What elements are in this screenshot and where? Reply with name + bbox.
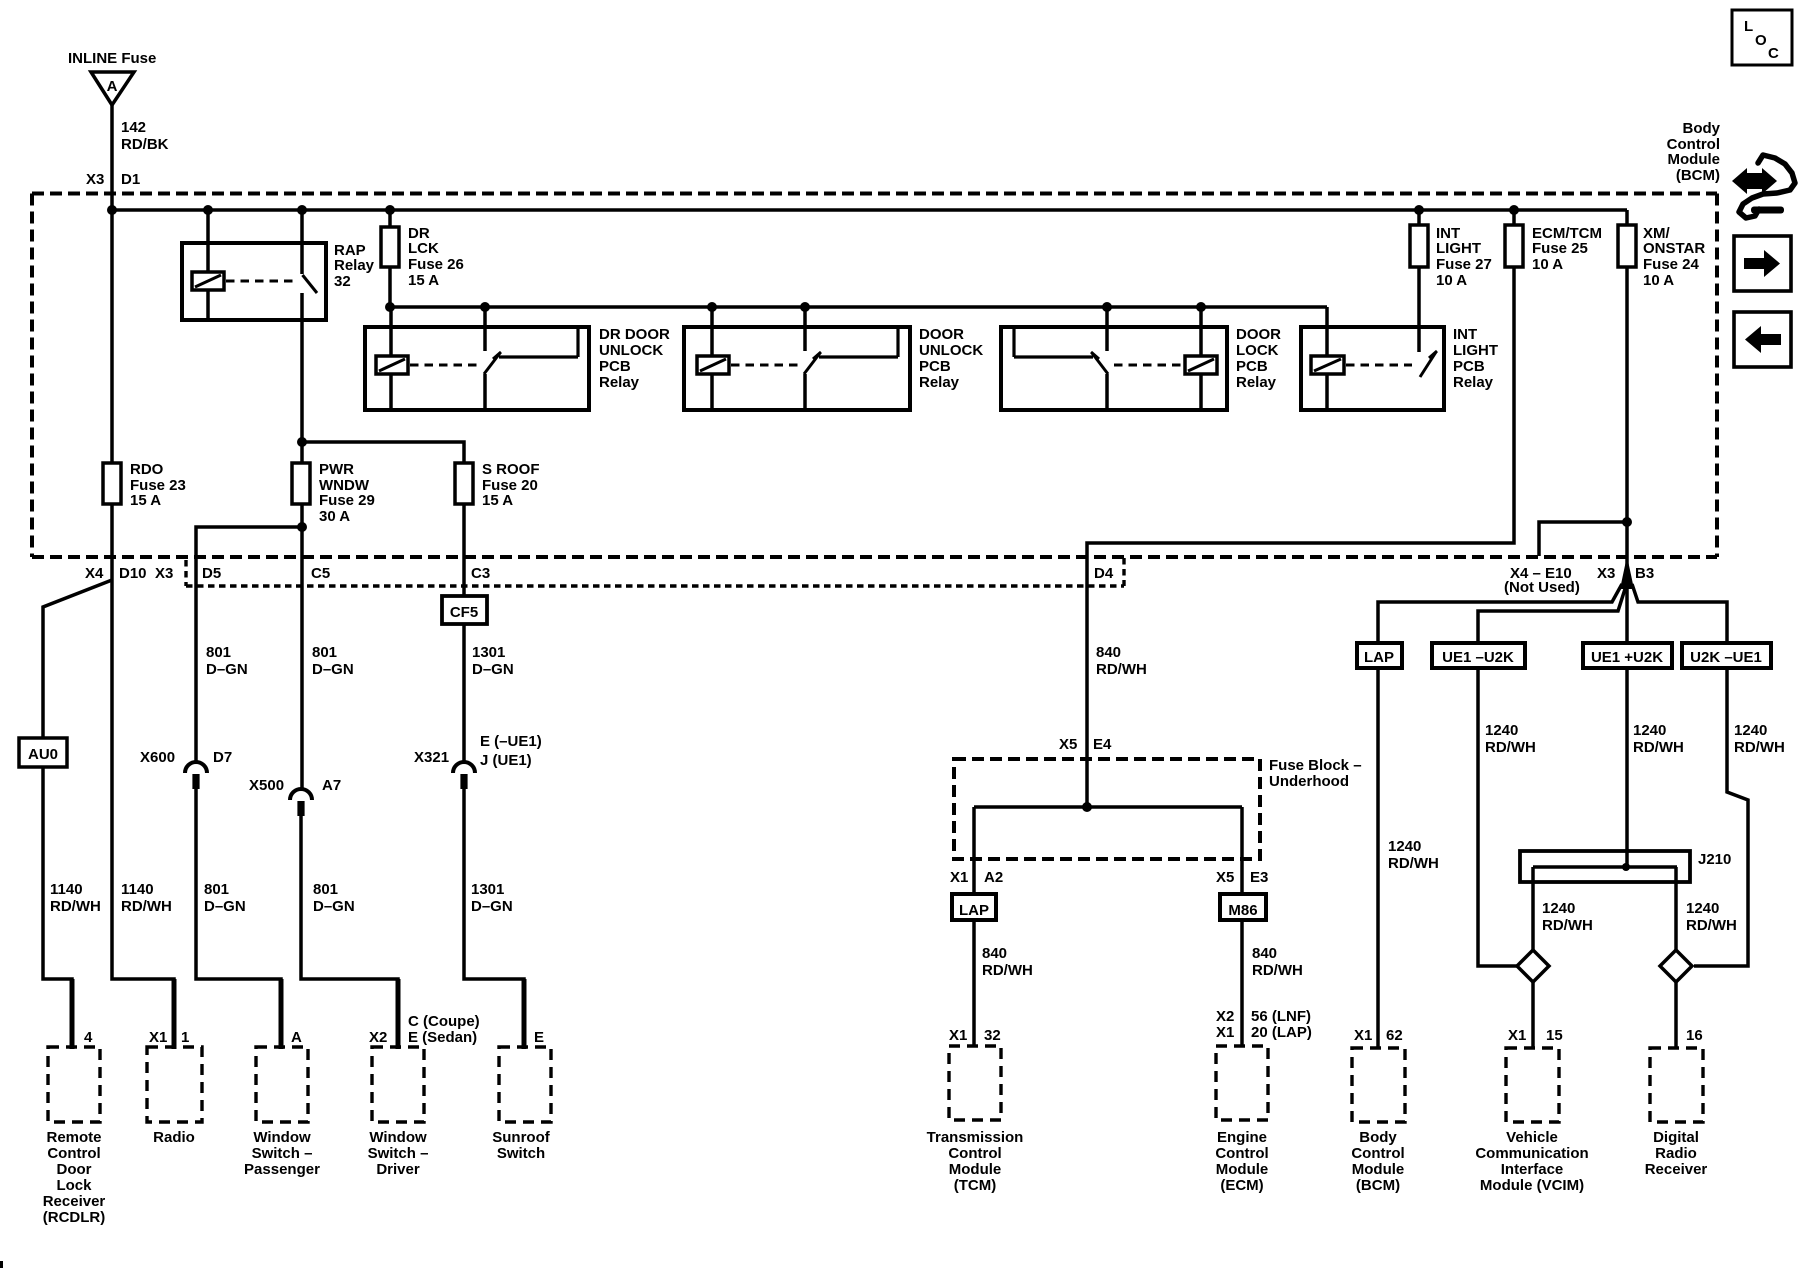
svg-text:X3: X3 xyxy=(1597,565,1615,582)
svg-text:Module: Module xyxy=(1352,1161,1405,1178)
svg-text:C5: C5 xyxy=(311,565,330,582)
svg-text:15 A: 15 A xyxy=(130,492,161,509)
svg-text:1240: 1240 xyxy=(1388,838,1421,855)
svg-text:1240: 1240 xyxy=(1633,722,1666,739)
wire splice to VCIM xyxy=(1531,982,1535,1048)
svg-text:1240: 1240 xyxy=(1686,900,1719,917)
relay DOOR LOCK PCB box xyxy=(1001,327,1227,410)
label 1301 D-GN (sunroof lower) xyxy=(471,881,513,915)
wire UE1-U2K down to splice xyxy=(1478,668,1518,966)
svg-text:X4: X4 xyxy=(85,565,104,582)
connector box Digital Radio Receiver conn xyxy=(1650,1048,1703,1122)
svg-text:Remote: Remote xyxy=(46,1129,101,1146)
INT LIGHT switch blade xyxy=(1420,351,1437,377)
svg-text:1301: 1301 xyxy=(472,644,505,661)
svg-text:RD/WH: RD/WH xyxy=(1252,962,1303,979)
label 142 RD/BK xyxy=(121,119,169,153)
connector tag UE1 +U2K xyxy=(1583,643,1672,668)
label X500 / A7 xyxy=(249,777,341,794)
svg-text:Control: Control xyxy=(1215,1145,1268,1162)
wire fan to U2K-UE1 xyxy=(1632,584,1727,643)
connector box Radio conn xyxy=(147,1047,202,1122)
svg-text:RD/WH: RD/WH xyxy=(1096,661,1147,678)
svg-text:Body: Body xyxy=(1683,120,1721,137)
svg-text:Transmission: Transmission xyxy=(927,1129,1024,1146)
wire X321 down to Sunroof Switch xyxy=(464,789,524,1047)
wire UE1+U2K down to J210 xyxy=(1625,668,1629,867)
RAP coil lower lead xyxy=(206,290,210,320)
label X3 / B3 xyxy=(1597,565,1654,582)
svg-text:Communication: Communication xyxy=(1475,1145,1588,1162)
wire bus to fuse 27 xyxy=(1417,210,1421,225)
svg-text:A7: A7 xyxy=(322,777,341,794)
fuse F23 RDO xyxy=(103,463,121,504)
svg-text:Digital: Digital xyxy=(1653,1129,1699,1146)
svg-text:1240: 1240 xyxy=(1485,722,1518,739)
junction rail / fuse 26 xyxy=(385,302,395,312)
junction bus / RAP switch xyxy=(297,205,307,215)
RAP relay switch blade xyxy=(303,275,318,293)
wire 142 RD/BK xyxy=(110,105,114,210)
DOOR UNLOCK coil lower lead xyxy=(710,374,714,410)
junction fuse block xyxy=(1082,802,1092,812)
svg-text:D–GN: D–GN xyxy=(312,661,354,678)
wire X4 diagonal to RCDLR branch xyxy=(43,580,112,738)
DOOR LOCK dashed link xyxy=(1114,364,1183,367)
svg-text:Control: Control xyxy=(47,1145,100,1162)
svg-text:E (–UE1): E (–UE1) xyxy=(480,733,542,750)
wire U2K-UE1 down with jog xyxy=(1694,668,1748,966)
wire fuse 25 down and left to D4 xyxy=(1087,267,1514,759)
svg-text:RD/WH: RD/WH xyxy=(1388,855,1439,872)
label Vehicle Communication Interface Module (VCIM) xyxy=(1475,1129,1588,1194)
wire LAP to TCM xyxy=(972,920,976,1046)
DOOR LOCK output notch xyxy=(1014,329,1093,357)
svg-text:A: A xyxy=(107,78,118,95)
svg-text:UE1 +U2K: UE1 +U2K xyxy=(1591,649,1663,666)
svg-text:RD/WH: RD/WH xyxy=(1542,917,1593,934)
LOC reference box xyxy=(1732,10,1792,65)
fuse F26 DR LCK xyxy=(381,227,399,267)
wire B3 main drop xyxy=(1625,557,1629,643)
svg-text:801: 801 xyxy=(206,644,231,661)
svg-text:Fuse 24: Fuse 24 xyxy=(1643,256,1700,273)
svg-text:C (Coupe): C (Coupe) xyxy=(408,1013,480,1030)
label 1140 RD/WH (Radio) xyxy=(121,881,172,915)
svg-text:LCK: LCK xyxy=(408,240,439,257)
svg-text:15 A: 15 A xyxy=(482,492,513,509)
connector tag U2K -UE1 xyxy=(1682,643,1771,668)
svg-text:LAP: LAP xyxy=(1364,649,1394,666)
svg-text:D7: D7 xyxy=(213,749,232,766)
svg-text:C3: C3 xyxy=(471,565,490,582)
label ECM/TCM Fuse 25 10 A xyxy=(1532,225,1602,273)
svg-text:PCB: PCB xyxy=(599,358,631,375)
svg-text:UE1 –U2K: UE1 –U2K xyxy=(1442,649,1514,666)
svg-text:D–GN: D–GN xyxy=(472,661,514,678)
wire fuse 26 to relay rail xyxy=(388,267,392,306)
label Transmission Control Module (TCM) xyxy=(927,1129,1024,1194)
svg-text:Lock: Lock xyxy=(56,1177,92,1194)
bold stub into RCDLR xyxy=(70,979,75,1049)
svg-text:X600: X600 xyxy=(140,749,175,766)
svg-text:X1: X1 xyxy=(949,1027,967,1044)
svg-text:Receiver: Receiver xyxy=(1645,1161,1708,1178)
junction RAP output / S ROOF branch xyxy=(297,437,307,447)
DOOR LOCK switch lower stub xyxy=(1105,374,1109,410)
label DOOR UNLOCK PCB Relay xyxy=(919,326,983,391)
junction block J210 xyxy=(1520,851,1690,882)
label PWR WNDW Fuse 29 30 A xyxy=(319,461,375,525)
svg-text:1140: 1140 xyxy=(50,881,83,898)
wire fuse 24 down to X3 B3 xyxy=(1625,267,1629,557)
connector AU0 xyxy=(19,738,67,767)
svg-text:DOOR: DOOR xyxy=(1236,326,1281,343)
fuse F29 PWR WNDW xyxy=(292,463,310,504)
svg-text:Module: Module xyxy=(1216,1161,1269,1178)
svg-text:Relay: Relay xyxy=(1453,374,1494,391)
svg-text:(RCDLR): (RCDLR) xyxy=(43,1209,105,1226)
DR DOOR UNLOCK dashed link xyxy=(410,364,478,367)
svg-text:(Not Used): (Not Used) xyxy=(1504,579,1580,596)
svg-text:X3: X3 xyxy=(86,171,104,188)
label DOOR LOCK PCB Relay xyxy=(1236,326,1281,391)
wire D10 down to Radio xyxy=(112,580,174,1047)
label XM/ONSTAR Fuse 24 10 A xyxy=(1643,225,1705,289)
symbol arrow-right box xyxy=(1734,236,1791,291)
svg-text:X500: X500 xyxy=(249,777,284,794)
svg-text:M86: M86 xyxy=(1228,902,1257,919)
svg-text:RD/WH: RD/WH xyxy=(1485,739,1536,756)
label X600 / D7 xyxy=(140,749,232,766)
wire LAP tag down to BCM connector xyxy=(1376,668,1380,1048)
svg-text:10 A: 10 A xyxy=(1436,272,1467,289)
label 1240 RD/WH (U2K-UE1) xyxy=(1734,722,1785,756)
svg-text:32: 32 xyxy=(334,273,351,290)
connector box Sunroof Switch conn xyxy=(499,1047,551,1122)
svg-text:Fuse 29: Fuse 29 xyxy=(319,492,375,509)
svg-text:RD/WH: RD/WH xyxy=(121,898,172,915)
svg-text:Sunroof: Sunroof xyxy=(492,1129,550,1146)
label Window Switch - Passenger xyxy=(244,1129,320,1178)
INT LIGHT coil xyxy=(1311,356,1344,374)
label DR DOOR UNLOCK PCB Relay xyxy=(599,326,670,391)
svg-text:Control: Control xyxy=(1351,1145,1404,1162)
DOOR LOCK coil xyxy=(1185,356,1217,374)
BCM module dashed outline xyxy=(32,194,1717,558)
fuse block internal bus xyxy=(974,805,1242,809)
wire splice to DRR xyxy=(1674,982,1678,1048)
RAP relay dashed link xyxy=(226,280,297,283)
svg-text:D–GN: D–GN xyxy=(471,898,513,915)
svg-text:Window: Window xyxy=(253,1129,311,1146)
svg-text:Relay: Relay xyxy=(919,374,960,391)
svg-text:RD/WH: RD/WH xyxy=(1633,739,1684,756)
svg-text:CF5: CF5 xyxy=(450,604,478,621)
svg-text:Vehicle: Vehicle xyxy=(1506,1129,1558,1146)
svg-text:DOOR: DOOR xyxy=(919,326,964,343)
label Body Control Module (BCM) bottom xyxy=(1351,1129,1404,1194)
svg-text:O: O xyxy=(1755,32,1767,49)
label 1240 RD/WH (DRR) xyxy=(1686,900,1737,934)
label X1 / A2 xyxy=(950,869,1003,886)
svg-text:RD/WH: RD/WH xyxy=(982,962,1033,979)
junction bus / fuse 26 xyxy=(385,205,395,215)
svg-text:D–GN: D–GN xyxy=(313,898,355,915)
svg-text:Window: Window xyxy=(369,1129,427,1146)
label Fuse Block - Underhood xyxy=(1269,757,1362,790)
junction bus / fuse 27 xyxy=(1414,205,1424,215)
svg-text:Fuse 26: Fuse 26 xyxy=(408,256,464,273)
DOOR UNLOCK switch wire xyxy=(803,306,807,351)
bold stub into WS passenger xyxy=(279,979,284,1049)
connector LAP (TCM feed) xyxy=(952,894,996,920)
svg-text:1301: 1301 xyxy=(471,881,504,898)
connector box RCDLR xyxy=(48,1047,100,1122)
svg-text:62: 62 xyxy=(1386,1027,1403,1044)
symbol arrow-left box xyxy=(1734,312,1791,367)
relay DOOR UNLOCK PCB box xyxy=(684,327,910,410)
svg-text:Fuse Block –: Fuse Block – xyxy=(1269,757,1362,774)
svg-text:X5: X5 xyxy=(1059,736,1077,753)
label Body Control Module (BCM) xyxy=(1667,120,1721,184)
relay RAP 32 box xyxy=(182,243,326,320)
svg-text:INLINE Fuse: INLINE Fuse xyxy=(68,50,156,67)
junction rail / DOOR UNLOCK coil xyxy=(707,302,717,312)
svg-text:Door: Door xyxy=(57,1161,92,1178)
svg-text:LOCK: LOCK xyxy=(1236,342,1279,359)
svg-text:UNLOCK: UNLOCK xyxy=(599,342,663,359)
svg-text:1: 1 xyxy=(181,1029,189,1046)
DOOR UNLOCK dashed link xyxy=(731,364,798,367)
label X1 / 62 xyxy=(1354,1027,1403,1044)
DOOR LOCK switch wire xyxy=(1105,306,1109,351)
svg-text:X1: X1 xyxy=(149,1029,167,1046)
wire J210 left leg xyxy=(1531,867,1535,950)
svg-text:10 A: 10 A xyxy=(1643,272,1674,289)
wire fuse 20 down through C3 to CF5 xyxy=(462,504,466,596)
svg-text:X1: X1 xyxy=(1216,1024,1234,1041)
connector box BCM conn xyxy=(1352,1048,1405,1122)
INT LIGHT coil lower lead xyxy=(1325,374,1329,410)
svg-text:RDO: RDO xyxy=(130,461,164,478)
label 801 D-GN (passenger lower) xyxy=(204,881,246,915)
svg-text:X1: X1 xyxy=(1354,1027,1372,1044)
wire fuse 29 down through C5 xyxy=(300,504,304,790)
svg-text:Relay: Relay xyxy=(334,257,375,274)
wire bus to fuse 25 xyxy=(1512,210,1516,225)
DOOR UNLOCK output notch xyxy=(819,329,898,357)
svg-text:D4: D4 xyxy=(1094,565,1114,582)
svg-text:D10: D10 xyxy=(119,565,147,582)
label Engine Control Module (ECM) xyxy=(1215,1129,1268,1194)
svg-text:Radio: Radio xyxy=(153,1129,195,1146)
fuse F27 INT LIGHT xyxy=(1410,225,1428,267)
connector box ECM conn xyxy=(1216,1046,1268,1120)
wire J210 right leg xyxy=(1674,867,1678,950)
svg-text:Module (VCIM): Module (VCIM) xyxy=(1480,1177,1584,1194)
B3 arrowhead xyxy=(1620,556,1634,589)
wire M86 to ECM xyxy=(1240,920,1244,1046)
svg-text:30 A: 30 A xyxy=(319,508,350,525)
wire fuse block to A2 xyxy=(972,807,976,894)
svg-text:(BCM): (BCM) xyxy=(1356,1177,1400,1194)
fuse F25 ECM/TCM xyxy=(1505,225,1523,267)
label 801 D-GN (D5 upper) xyxy=(206,644,248,678)
label E (-UE1) / J (UE1) xyxy=(480,733,542,769)
DOOR LOCK coil lower lead xyxy=(1199,374,1203,410)
label 801 D-GN (driver lower) xyxy=(313,881,355,915)
label X3 / D1 connector pins xyxy=(86,171,140,188)
svg-text:D–GN: D–GN xyxy=(206,661,248,678)
DOOR UNLOCK switch lower stub xyxy=(803,374,807,410)
svg-text:Driver: Driver xyxy=(376,1161,420,1178)
label X1 / 32 xyxy=(949,1027,1001,1044)
svg-text:Relay: Relay xyxy=(1236,374,1277,391)
svg-text:C: C xyxy=(1768,45,1779,62)
label 840 RD/WH (ECM) xyxy=(1252,945,1303,979)
svg-text:D1: D1 xyxy=(121,171,140,188)
svg-text:E (Sedan): E (Sedan) xyxy=(408,1029,477,1046)
svg-text:E3: E3 xyxy=(1250,869,1268,886)
connector tag LAP xyxy=(1357,643,1402,668)
svg-text:E: E xyxy=(534,1029,544,1046)
svg-text:RD/WH: RD/WH xyxy=(1734,739,1785,756)
svg-text:RD/WH: RD/WH xyxy=(1686,917,1737,934)
label X5 / E4 xyxy=(1059,736,1112,753)
splice diamond (VCIM) xyxy=(1517,950,1549,982)
svg-text:Engine: Engine xyxy=(1217,1129,1267,1146)
wire fuse 27 to INT LIGHT relay switch xyxy=(1417,267,1421,352)
wire X500 down to Window Switch Driver xyxy=(301,816,398,1047)
svg-text:142: 142 xyxy=(121,119,146,136)
wire AU0 down to RCDLR xyxy=(43,767,72,1047)
symbol hand arrow (twisted lead) xyxy=(1732,155,1795,218)
svg-text:X1: X1 xyxy=(950,869,968,886)
svg-text:(BCM): (BCM) xyxy=(1676,167,1720,184)
svg-text:10 A: 10 A xyxy=(1532,256,1563,273)
svg-text:Switch –: Switch – xyxy=(368,1145,429,1162)
svg-text:X3: X3 xyxy=(155,565,173,582)
svg-text:56 (LNF): 56 (LNF) xyxy=(1251,1008,1311,1025)
label INT LIGHT Fuse 27 10 A xyxy=(1436,225,1492,289)
bus wire from inline fuse across BCM xyxy=(112,208,1627,212)
connector X500 xyxy=(290,789,312,800)
junction bus / fuse 25 xyxy=(1509,205,1519,215)
svg-text:X5: X5 xyxy=(1216,869,1234,886)
wire bus corner into fuse 24 xyxy=(1625,210,1629,225)
splice diamond (DRR) xyxy=(1660,950,1692,982)
label INT LIGHT PCB Relay xyxy=(1453,326,1498,391)
label X4 - E10 (Not Used) xyxy=(1504,565,1580,596)
svg-text:E4: E4 xyxy=(1093,736,1112,753)
label 801 D-GN (C5 upper) xyxy=(312,644,354,678)
svg-text:PWR: PWR xyxy=(319,461,354,478)
svg-text:4: 4 xyxy=(84,1029,93,1046)
svg-text:D–GN: D–GN xyxy=(204,898,246,915)
label X5 / E3 xyxy=(1216,869,1268,886)
svg-text:1140: 1140 xyxy=(121,881,154,898)
junction rail / DOOR LOCK coil xyxy=(1196,302,1206,312)
DOOR LOCK coil wire xyxy=(1199,306,1203,356)
DR DOOR UNLOCK coil xyxy=(376,356,408,374)
DR DOOR UNLOCK coil lower lead xyxy=(389,374,393,410)
svg-text:RD/WH: RD/WH xyxy=(50,898,101,915)
svg-text:LAP: LAP xyxy=(959,902,989,919)
svg-text:840: 840 xyxy=(982,945,1007,962)
svg-text:X1: X1 xyxy=(1508,1027,1526,1044)
DR DOOR UNLOCK coil wire xyxy=(389,306,393,356)
DOOR UNLOCK coil wire xyxy=(710,306,714,356)
label Digital Radio Receiver xyxy=(1645,1129,1708,1178)
DR DOOR UNLOCK switch blade xyxy=(484,352,501,374)
svg-text:PCB: PCB xyxy=(919,358,951,375)
junction bus / RAP coil xyxy=(203,205,213,215)
junction rail / DOOR UNLOCK switch xyxy=(800,302,810,312)
DR DOOR UNLOCK switch wire xyxy=(483,306,487,351)
svg-text:Module: Module xyxy=(1668,151,1721,168)
svg-text:32: 32 xyxy=(984,1027,1001,1044)
svg-text:J210: J210 xyxy=(1698,851,1731,868)
svg-text:A: A xyxy=(291,1029,302,1046)
svg-text:20 (LAP): 20 (LAP) xyxy=(1251,1024,1312,1041)
connector box Window Switch Passenger conn xyxy=(256,1047,308,1122)
junction on bus at X3 D1 xyxy=(107,205,117,215)
svg-text:16: 16 xyxy=(1686,1027,1703,1044)
inline fuse A (triangle) xyxy=(91,72,134,105)
svg-text:Interface: Interface xyxy=(1501,1161,1564,1178)
connector M86 (ECM feed) xyxy=(1220,894,1266,920)
label 1240 RD/WH (UE1+U2K) xyxy=(1633,722,1684,756)
svg-text:Relay: Relay xyxy=(599,374,640,391)
svg-text:L: L xyxy=(1744,18,1753,35)
svg-text:B3: B3 xyxy=(1635,565,1654,582)
connector box VCIM conn xyxy=(1506,1048,1559,1122)
svg-text:RD/BK: RD/BK xyxy=(121,136,169,153)
label RDO Fuse 23 15 A xyxy=(130,461,186,509)
label Remote Control Door Lock Receiver (RCDLR) xyxy=(43,1129,106,1226)
label X2 / C (Coupe) E (Sedan) xyxy=(369,1013,480,1046)
relay feed rail wire xyxy=(390,305,1327,309)
wire RAP switch down to fuse 29 xyxy=(300,293,304,463)
label X4 / D10 xyxy=(85,565,147,582)
svg-text:DR DOOR: DR DOOR xyxy=(599,326,670,343)
RAP relay switch wire xyxy=(300,210,304,274)
page artifact mark xyxy=(0,1261,3,1268)
DOOR UNLOCK coil xyxy=(697,356,729,374)
svg-text:X2: X2 xyxy=(1216,1008,1234,1025)
svg-text:801: 801 xyxy=(312,644,337,661)
label 1240 RD/WH (BCM) xyxy=(1388,838,1439,872)
label X2 56 (LNF) / X1 20 (LAP) xyxy=(1216,1008,1312,1041)
svg-text:840: 840 xyxy=(1096,644,1121,661)
svg-text:X2: X2 xyxy=(369,1029,387,1046)
label RAP Relay 32 xyxy=(334,242,375,290)
connector strip dashed outline xyxy=(186,558,1124,586)
branch wire to fuse 20 xyxy=(302,442,464,463)
bold stub into WS driver xyxy=(396,979,401,1049)
junction fuse 24 wire / X4-E10 stub xyxy=(1622,517,1632,527)
label 1301 D-GN (C3 upper) xyxy=(472,644,514,678)
svg-text:UNLOCK: UNLOCK xyxy=(919,342,983,359)
connector X321 xyxy=(453,762,475,773)
svg-text:(ECM): (ECM) xyxy=(1220,1177,1263,1194)
svg-text:Control: Control xyxy=(948,1145,1001,1162)
bold stub into Radio xyxy=(172,979,177,1049)
fuse F24 XM/ONSTAR xyxy=(1618,225,1636,267)
label DR LCK Fuse 26 15 A xyxy=(408,225,464,289)
bold stub into Sunroof xyxy=(522,979,527,1049)
